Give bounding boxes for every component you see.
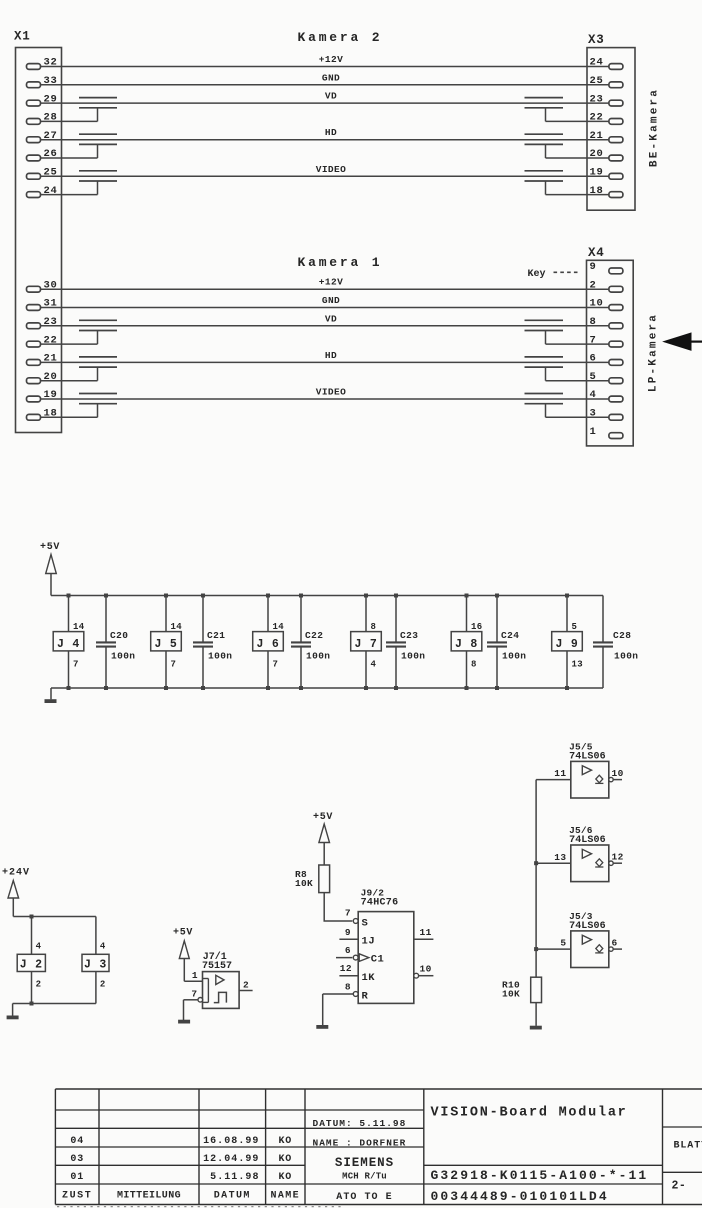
wire X1-30 to X4 — [40, 288, 609, 290]
svg-text:+12V: +12V — [319, 54, 343, 65]
wire X4 shield stub right — [546, 416, 609, 418]
output pin 11 (74HC76) — [414, 938, 434, 940]
svg-text:5: 5 — [572, 622, 578, 632]
connector X1 body — [16, 48, 62, 433]
connector X3 pin 18 — [609, 192, 623, 198]
svg-text:9: 9 — [345, 927, 351, 938]
junction J2 bottom — [30, 1002, 34, 1006]
shield marks right of HD (Kamera 1) — [525, 356, 564, 358]
wire gate input bus — [535, 780, 537, 978]
IC power block J9 — [566, 596, 568, 632]
svg-text:G32918-K0115-A100-*-11: G32918-K0115-A100-*-11 — [431, 1168, 649, 1183]
connector X1 pin 32 (Kamera 2) — [27, 64, 41, 70]
shield marks right of VD (Kamera 1) — [525, 319, 564, 321]
svg-text:2-: 2- — [672, 1179, 687, 1192]
connector X3 pin 21 — [609, 137, 623, 143]
svg-text:J 5: J 5 — [154, 638, 177, 651]
connector X1 pin 24 (Kamera 2) — [27, 192, 41, 198]
connector X3 pin 25 — [609, 82, 623, 88]
junction J2 top — [30, 915, 34, 919]
connector X3 pin 19 — [609, 173, 623, 179]
svg-text:13: 13 — [572, 659, 584, 669]
svg-text:KO: KO — [278, 1154, 292, 1165]
svg-text:7: 7 — [171, 659, 177, 669]
resistor R8 10K — [319, 865, 330, 893]
junction J9 bottom — [565, 686, 569, 690]
capacitor C21 100n — [202, 596, 204, 642]
pin S bubble (74HC76) — [353, 919, 358, 924]
svg-text:75157: 75157 — [202, 961, 232, 972]
power +5V symbol (74HC76) — [319, 824, 330, 843]
svg-text:1: 1 — [590, 426, 597, 438]
connector X4 pin 2 — [609, 286, 623, 292]
junction bus to J5/3 — [534, 947, 538, 951]
svg-text:9: 9 — [590, 261, 597, 273]
connector X1 pin 23 (Kamera 1) — [27, 323, 41, 329]
wire R8 to S pin — [324, 893, 352, 921]
junction bus to J5/6 — [534, 861, 538, 865]
svg-text:8: 8 — [471, 659, 477, 669]
wire X1-22 shield stub left — [40, 343, 98, 345]
output pin 6 with bubble (J5/3) — [609, 947, 613, 951]
capacitor C24 100n — [496, 596, 498, 642]
junction C22 bottom — [299, 686, 303, 690]
svg-text:4: 4 — [100, 942, 106, 952]
svg-text:6: 6 — [612, 937, 618, 948]
junction C24 top — [495, 594, 499, 598]
svg-text:11: 11 — [554, 768, 566, 779]
shield marks right of VIDEO (Kamera 1) — [525, 393, 564, 395]
junction J4 top — [67, 594, 71, 598]
input wire pin 11 (J5/5) — [536, 779, 571, 781]
capacitor C20 100n — [105, 596, 107, 642]
IC power block J8 — [466, 596, 468, 632]
svg-text:J 9: J 9 — [555, 638, 578, 651]
capacitor C22 100n — [300, 596, 302, 642]
shield marks right of VD (Kamera 2) — [525, 97, 564, 99]
svg-text:00344489-010101LD4: 00344489-010101LD4 — [431, 1189, 609, 1204]
svg-text:5: 5 — [560, 938, 566, 949]
svg-text:C23: C23 — [400, 630, 418, 641]
capacitor C23 100n — [395, 596, 397, 642]
connector X1 pin 26 (Kamera 2) — [27, 155, 41, 161]
svg-text:BE-Kamera: BE-Kamera — [649, 88, 661, 167]
wire X1-29 to X3-23 — [40, 102, 609, 104]
svg-text:VD: VD — [325, 91, 337, 102]
wire X1-31 to X4 — [40, 307, 609, 309]
svg-text:10: 10 — [612, 768, 624, 779]
wire X1-21 to X4 — [40, 361, 609, 363]
pin C1 clock (74HC76) — [336, 957, 352, 959]
svg-text:100n: 100n — [208, 650, 232, 661]
junction J6 bottom — [266, 686, 270, 690]
connector X1 pin 29 (Kamera 2) — [27, 100, 41, 106]
junction C20 top — [104, 594, 108, 598]
junction C23 top — [394, 594, 398, 598]
svg-text:14: 14 — [171, 622, 183, 632]
svg-text:ZUST: ZUST — [62, 1191, 92, 1202]
svg-text:2: 2 — [36, 980, 42, 990]
wire X3-22 shield stub right — [546, 120, 609, 122]
svg-text:16.08.99: 16.08.99 — [203, 1136, 259, 1147]
svg-text:74HC76: 74HC76 — [361, 898, 399, 909]
svg-text:2: 2 — [243, 980, 249, 991]
svg-text:HD: HD — [325, 127, 337, 138]
arrow marker pointing at X4 — [664, 333, 691, 350]
svg-text:GND: GND — [322, 72, 340, 83]
wire X1-33 to X3-25 — [40, 84, 609, 86]
svg-text:S: S — [362, 917, 369, 929]
connector X3 body — [587, 48, 635, 211]
connector X3 pin 23 — [609, 100, 623, 106]
connector X3 pin 20 — [609, 155, 623, 161]
junction C21 top — [201, 594, 205, 598]
svg-text:VISION-Board Modular: VISION-Board Modular — [431, 1106, 628, 1121]
junction J8 top — [465, 594, 469, 598]
connector X4 pin 1 — [609, 433, 623, 439]
shield marks right of HD (Kamera 2) — [525, 133, 564, 135]
svg-text:+24V: +24V — [2, 868, 30, 879]
connector X4 pin 10 — [609, 305, 623, 311]
output pin 12 with bubble (J5/6) — [609, 861, 613, 865]
connector X4 pin 9 — [609, 268, 623, 274]
svg-text:C22: C22 — [305, 630, 323, 641]
connector X4 pin 4 — [609, 396, 623, 402]
connector X1 pin 28 (Kamera 2) — [27, 119, 41, 125]
svg-text:10K: 10K — [502, 988, 520, 999]
junction J4 bottom — [67, 686, 71, 690]
junction C20 bottom — [104, 686, 108, 690]
svg-text:GND: GND — [322, 295, 340, 306]
svg-text:MITTEILUNG: MITTEILUNG — [117, 1191, 181, 1202]
svg-text:14: 14 — [273, 622, 285, 632]
ground (rail left) — [50, 688, 52, 699]
connector X1 pin 30 (Kamera 1) — [27, 286, 41, 292]
svg-text:4: 4 — [36, 942, 42, 952]
svg-text:+5V: +5V — [313, 812, 333, 823]
junction C24 bottom — [495, 686, 499, 690]
svg-text:14: 14 — [73, 622, 85, 632]
IC power block J4 — [68, 596, 70, 632]
shield marks left of VIDEO (Kamera 2) — [79, 170, 117, 172]
pin 1K stub (74HC76) — [339, 975, 358, 977]
svg-text:1: 1 — [192, 970, 198, 981]
connector X3 pin 22 — [609, 119, 623, 125]
connector X4 pin 5 — [609, 378, 623, 384]
svg-text:100n: 100n — [502, 650, 526, 661]
shield marks left of VD (Kamera 1) — [79, 319, 117, 321]
connector X1 pin 25 (Kamera 2) — [27, 173, 41, 179]
connector X1 pin 27 (Kamera 2) — [27, 137, 41, 143]
svg-text:DATUM: DATUM — [214, 1191, 251, 1202]
svg-text:10: 10 — [420, 964, 432, 975]
svg-text:8: 8 — [345, 982, 351, 993]
connector X1 pin 21 (Kamera 1) — [27, 360, 41, 366]
key dashed mark — [554, 271, 580, 273]
svg-text:J 3: J 3 — [84, 959, 107, 972]
svg-text:NAME : DORFNER: NAME : DORFNER — [313, 1137, 407, 1148]
svg-text:ATO TO E: ATO TO E — [336, 1192, 392, 1203]
output pin 10 with bubble (J5/5) — [609, 777, 613, 781]
svg-text:R: R — [362, 990, 369, 1002]
svg-text:C1: C1 — [371, 954, 384, 966]
junction J6 top — [266, 594, 270, 598]
shield marks left of VIDEO (Kamera 1) — [79, 393, 117, 395]
wire X1-19 to X4 — [40, 398, 609, 400]
svg-text:Kamera 1: Kamera 1 — [298, 255, 383, 270]
svg-text:7: 7 — [273, 659, 279, 669]
wire X1-18 shield stub left — [40, 416, 98, 418]
wire X4 shield stub right — [546, 380, 609, 382]
wire +5V top rail — [51, 595, 603, 597]
svg-text:7: 7 — [191, 989, 197, 1000]
input wire pin 13 (J5/6) — [536, 862, 571, 864]
shield marks right of VIDEO (Kamera 2) — [525, 170, 564, 172]
svg-text:6: 6 — [345, 945, 351, 956]
resistor R10 10K — [531, 977, 542, 1002]
svg-text:C20: C20 — [110, 630, 128, 641]
wire X3-18 shield stub right — [546, 194, 609, 196]
pin R wire (74HC76) — [323, 993, 354, 995]
wire GND bottom rail — [51, 687, 603, 689]
perforation marks — [57, 1206, 345, 1208]
pin 1J stub (74HC76) — [339, 938, 358, 940]
ground (J2/J3) — [12, 1004, 14, 1016]
junction J8 bottom — [465, 686, 469, 690]
wire X4 shield stub right — [546, 343, 609, 345]
wire X1-23 to X4 — [40, 325, 609, 327]
svg-text:1K: 1K — [362, 972, 376, 984]
svg-text:10K: 10K — [295, 878, 313, 889]
connector X1 pin 33 (Kamera 2) — [27, 82, 41, 88]
connector X1 pin 18 (Kamera 1) — [27, 414, 41, 420]
svg-text:C21: C21 — [207, 630, 225, 641]
pin 7 wire with bubble (75157) — [184, 999, 198, 1001]
relay coil J2 — [31, 917, 33, 955]
svg-text:DATUM: 5.11.98: DATUM: 5.11.98 — [313, 1118, 407, 1129]
power +24V symbol — [8, 881, 19, 899]
junction C22 top — [299, 594, 303, 598]
junction J5 top — [164, 594, 168, 598]
svg-text:+5V: +5V — [40, 542, 60, 553]
capacitor C28 100n — [602, 596, 604, 642]
svg-text:J 2: J 2 — [20, 959, 43, 972]
connector X1 pin 20 (Kamera 1) — [27, 378, 41, 384]
svg-text:J 7: J 7 — [354, 638, 377, 651]
svg-text:100n: 100n — [111, 650, 135, 661]
svg-text:HD: HD — [325, 350, 337, 361]
wire X1-32 to X3-24 — [40, 66, 609, 68]
svg-text:8: 8 — [371, 622, 377, 632]
output pin 2 (75157) — [239, 990, 253, 992]
svg-text:03: 03 — [70, 1154, 84, 1165]
connector X1 pin 22 (Kamera 1) — [27, 341, 41, 347]
svg-text:01: 01 — [70, 1172, 84, 1183]
svg-text:BLATT: BLATT — [674, 1141, 702, 1152]
wire X1-27 to X3-21 — [40, 139, 609, 141]
svg-text:KO: KO — [278, 1172, 292, 1183]
svg-text:11: 11 — [420, 927, 432, 938]
svg-text:NAME: NAME — [270, 1191, 300, 1202]
connector X1 pin 31 (Kamera 1) — [27, 305, 41, 311]
ground (R10) — [535, 1003, 537, 1026]
shield marks left of HD (Kamera 2) — [79, 133, 117, 135]
wire J2 J3 to ground — [13, 1003, 96, 1005]
ground (75157) — [183, 1000, 185, 1020]
IC power block J5 — [165, 596, 167, 632]
svg-text:SIEMENS: SIEMENS — [335, 1156, 394, 1170]
junction J5 bottom — [164, 686, 168, 690]
svg-text:KO: KO — [278, 1136, 292, 1147]
svg-text:12.04.99: 12.04.99 — [203, 1154, 259, 1165]
svg-text:VIDEO: VIDEO — [316, 164, 347, 175]
IC power block J7 — [365, 596, 367, 632]
svg-text:J 6: J 6 — [256, 638, 279, 651]
connector X1 pin 19 (Kamera 1) — [27, 396, 41, 402]
connector X3 pin 24 — [609, 64, 623, 70]
connector X4 pin 3 — [609, 414, 623, 420]
relay coil J3 — [95, 917, 97, 955]
junction J7 bottom — [364, 686, 368, 690]
junction C21 bottom — [201, 686, 205, 690]
svg-text:J 8: J 8 — [455, 638, 478, 651]
svg-text:13: 13 — [554, 852, 566, 863]
svg-text:12: 12 — [612, 851, 624, 862]
connector X4 body — [587, 260, 634, 446]
connector X4 pin 6 — [609, 360, 623, 366]
wire +5V to 75157 pin 1 — [184, 980, 202, 982]
wire X1-20 shield stub left — [40, 380, 98, 382]
svg-text:C24: C24 — [501, 630, 519, 641]
svg-text:100n: 100n — [306, 650, 330, 661]
shield marks left of VD (Kamera 2) — [79, 97, 117, 99]
junction J9 top — [565, 594, 569, 598]
svg-text:VIDEO: VIDEO — [316, 387, 347, 398]
svg-text:04: 04 — [70, 1136, 84, 1147]
svg-text:X4: X4 — [588, 246, 605, 260]
svg-text:2: 2 — [100, 980, 106, 990]
svg-text:X1: X1 — [14, 30, 31, 44]
svg-text:1J: 1J — [362, 935, 376, 947]
svg-text:MCH R/Tu: MCH R/Tu — [342, 1172, 387, 1182]
output pin 10 with bubble (74HC76) — [414, 973, 419, 978]
svg-text:12: 12 — [340, 963, 352, 974]
svg-text:100n: 100n — [401, 650, 425, 661]
svg-text:100n: 100n — [614, 650, 638, 661]
wire X1-25 to X3-19 — [40, 175, 609, 177]
svg-text:7: 7 — [73, 659, 79, 669]
svg-text:C28: C28 — [613, 630, 631, 641]
svg-text:Key: Key — [528, 269, 546, 280]
svg-text:J 4: J 4 — [57, 638, 80, 651]
wire X3-20 shield stub right — [546, 157, 609, 159]
wire X1-24 shield stub left — [40, 194, 98, 196]
input wire pin 5 (J5/3) — [536, 948, 571, 950]
connector X4 pin 8 — [609, 323, 623, 329]
svg-text:VD: VD — [325, 313, 337, 324]
shield marks left of HD (Kamera 1) — [79, 356, 117, 358]
IC power block J6 — [267, 596, 269, 632]
junction C23 bottom — [394, 686, 398, 690]
power +5V symbol (rail) — [46, 555, 57, 574]
svg-text:4: 4 — [371, 659, 377, 669]
svg-text:16: 16 — [471, 622, 483, 632]
title block frame — [54, 1089, 56, 1205]
ground (74HC76) — [322, 994, 324, 1025]
svg-text:X3: X3 — [588, 33, 605, 47]
wire X1-28 shield stub left — [40, 120, 98, 122]
svg-text:Kamera 2: Kamera 2 — [298, 30, 383, 45]
connector X4 pin 7 — [609, 341, 623, 347]
svg-text:+12V: +12V — [319, 277, 343, 288]
svg-text:+5V: +5V — [173, 928, 193, 939]
svg-text:LP-Kamera: LP-Kamera — [648, 313, 660, 392]
wire X1-26 shield stub left — [40, 157, 98, 159]
svg-text:5.11.98: 5.11.98 — [210, 1172, 259, 1183]
svg-text:7: 7 — [345, 908, 351, 919]
junction J7 top — [364, 594, 368, 598]
wire +24V to J2 J3 — [13, 916, 96, 918]
power +5V symbol (75157) — [179, 941, 189, 959]
